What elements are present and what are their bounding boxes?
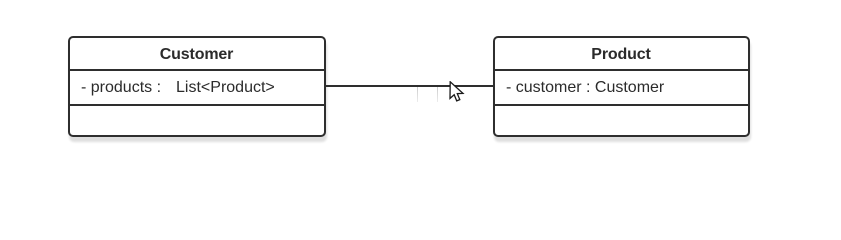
Product title compartment <box>495 38 748 72</box>
association wire Customer-Product <box>325 85 493 87</box>
Customer attribute: - products : List<Product> <box>70 71 324 106</box>
class box Product <box>493 36 750 138</box>
Product attribute: - customer : Customer <box>495 71 748 106</box>
Customer empty methods compartment <box>70 105 324 107</box>
class box Customer <box>68 36 326 138</box>
faint guide line 2 <box>437 87 438 102</box>
faint guide line 1 <box>417 87 418 102</box>
mouse cursor <box>449 81 467 105</box>
Customer title compartment <box>70 38 324 72</box>
Product empty methods compartment <box>495 105 748 107</box>
